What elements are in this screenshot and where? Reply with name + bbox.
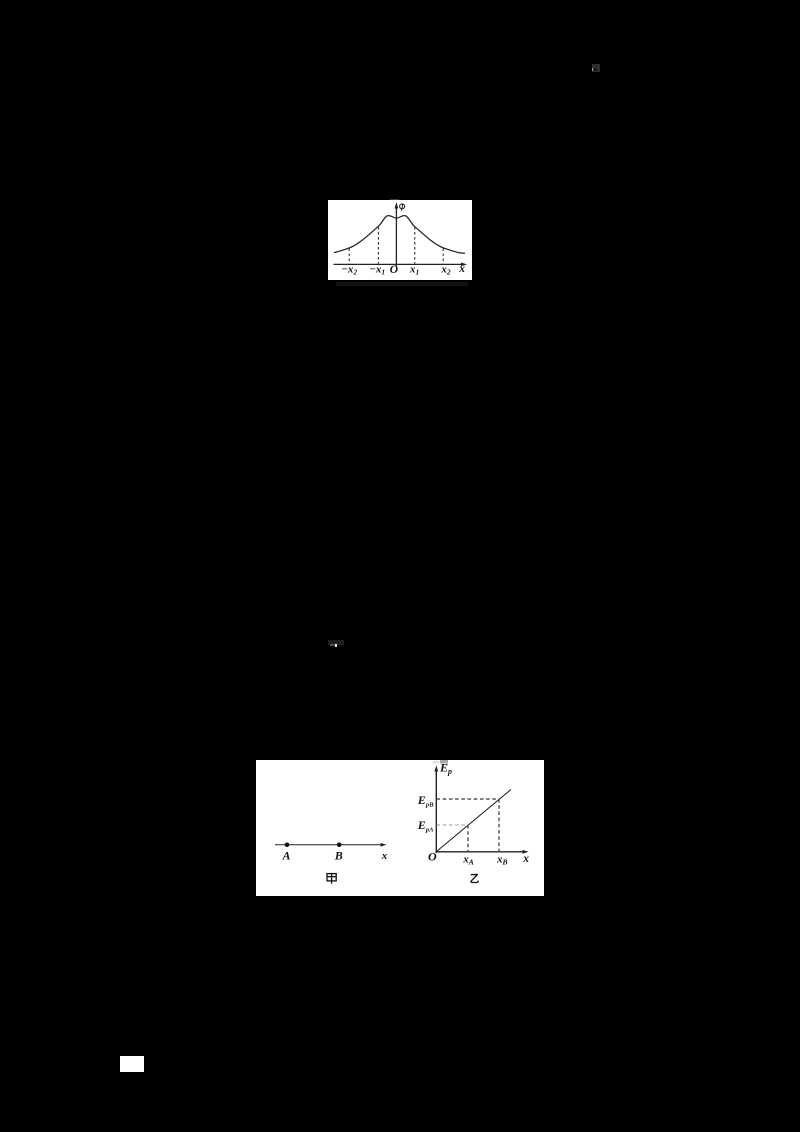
svg-text:O: O	[428, 850, 437, 864]
svg-text:x: x	[522, 853, 529, 865]
svg-text:O: O	[390, 264, 398, 276]
svg-text:EpB: EpB	[417, 793, 434, 809]
svg-text:−x2: −x2	[341, 264, 357, 277]
svg-text:−x1: −x1	[369, 264, 385, 277]
svg-text:x: x	[458, 263, 465, 275]
svg-text:x1: x1	[409, 264, 419, 277]
svg-text:xB: xB	[496, 854, 508, 867]
svg-text:Ep: Ep	[439, 761, 452, 777]
svg-text:x: x	[381, 850, 388, 862]
svg-text:A: A	[282, 849, 291, 863]
svg-text:xA: xA	[462, 854, 474, 867]
svg-text:x2: x2	[440, 264, 451, 277]
svg-text:B: B	[334, 849, 343, 863]
svg-text:EpA: EpA	[417, 818, 434, 834]
